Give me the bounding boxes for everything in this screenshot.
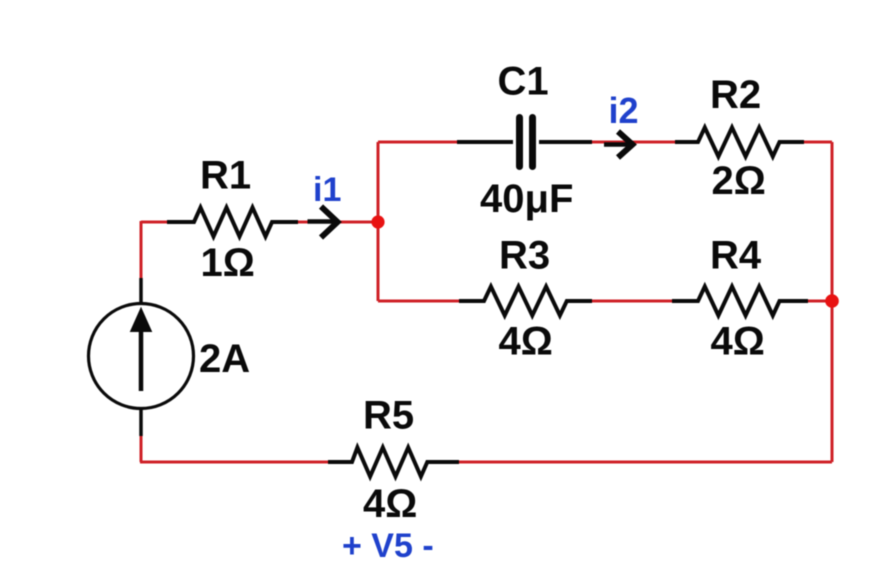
- resistor R4: [672, 287, 808, 316]
- resistor R2: [675, 128, 804, 157]
- svg-text:1Ω: 1Ω: [201, 241, 255, 285]
- wire: top-left horizontal (source to node A): [141, 221, 378, 224]
- svg-text:R4: R4: [710, 234, 762, 278]
- wire: middle vertical (top wire down through node A to R3 row): [377, 142, 380, 301]
- svg-text:i1: i1: [313, 171, 341, 209]
- svg-text:2Ω: 2Ω: [712, 159, 766, 203]
- svg-text:+ V5 -: + V5 -: [342, 527, 434, 565]
- svg-text:i2: i2: [609, 90, 639, 131]
- wire: bottom horizontal (through R5): [140, 461, 832, 464]
- wire: left vertical lower (source bottom to corner): [140, 435, 143, 462]
- svg-text:C1: C1: [498, 60, 549, 104]
- node B junction dot: [825, 294, 839, 308]
- capacitor C1: [457, 118, 592, 167]
- wire: top horizontal (node A to right corner, through C1 and R2): [378, 141, 832, 144]
- svg-text:4Ω: 4Ω: [499, 320, 553, 364]
- svg-text:2A: 2A: [199, 337, 250, 381]
- node A junction dot: [371, 215, 384, 228]
- svg-text:40μF: 40μF: [480, 177, 573, 221]
- current source I1 2A: [89, 278, 194, 436]
- svg-text:4Ω: 4Ω: [711, 320, 765, 364]
- wire: middle horizontal (R3 R4 row): [378, 300, 832, 303]
- svg-text:R1: R1: [200, 154, 251, 198]
- resistor R3: [459, 287, 592, 316]
- svg-text:4Ω: 4Ω: [363, 482, 417, 526]
- svg-text:R5: R5: [363, 394, 414, 438]
- current arrow i2: [604, 132, 633, 158]
- svg-text:R3: R3: [499, 234, 550, 278]
- wire: left vertical upper (corner to source top): [140, 221, 143, 278]
- resistor R5: [328, 448, 459, 477]
- svg-text:R2: R2: [710, 73, 761, 117]
- resistor R1: [167, 208, 298, 237]
- current arrow i1: [308, 207, 338, 238]
- wire: right vertical (R2 corner down to bottom corner): [831, 142, 834, 462]
